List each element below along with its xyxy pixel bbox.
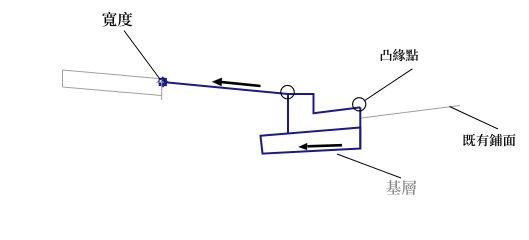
width point marker (navy CAD point star) (157, 76, 168, 87)
right vertical edge (navy) (359, 107, 361, 148)
label: base layer (ji ceng) (386, 180, 416, 195)
leader line for width label (124, 31, 160, 79)
vertical line below first flange circle (navy) (287, 95, 289, 134)
leader line for base layer label (337, 154, 401, 178)
base layer parallelogram (navy) (261, 128, 361, 154)
label: width (kuan du) (102, 12, 132, 27)
existing lane outline (gray quad) (63, 70, 162, 96)
marker center hole (160, 80, 162, 82)
flange circle 1 (black) (281, 85, 294, 98)
existing pavement extension line (gray) (362, 106, 461, 119)
flange circle 2 (black) (353, 98, 366, 111)
marker gray crosshair (156, 80, 164, 101)
direction arrow upper (black) (222, 82, 261, 86)
label: flange point (tu yuan dian) (381, 49, 418, 61)
step lines at flange (navy) (288, 94, 360, 113)
label: existing pavement (ji you pu mian) (463, 134, 515, 147)
direction arrow lower (black) (308, 145, 343, 146)
leader line for flange point label (364, 69, 412, 101)
leader line for existing pavement label (450, 107, 499, 130)
lane surface line (navy) (165, 82, 288, 94)
